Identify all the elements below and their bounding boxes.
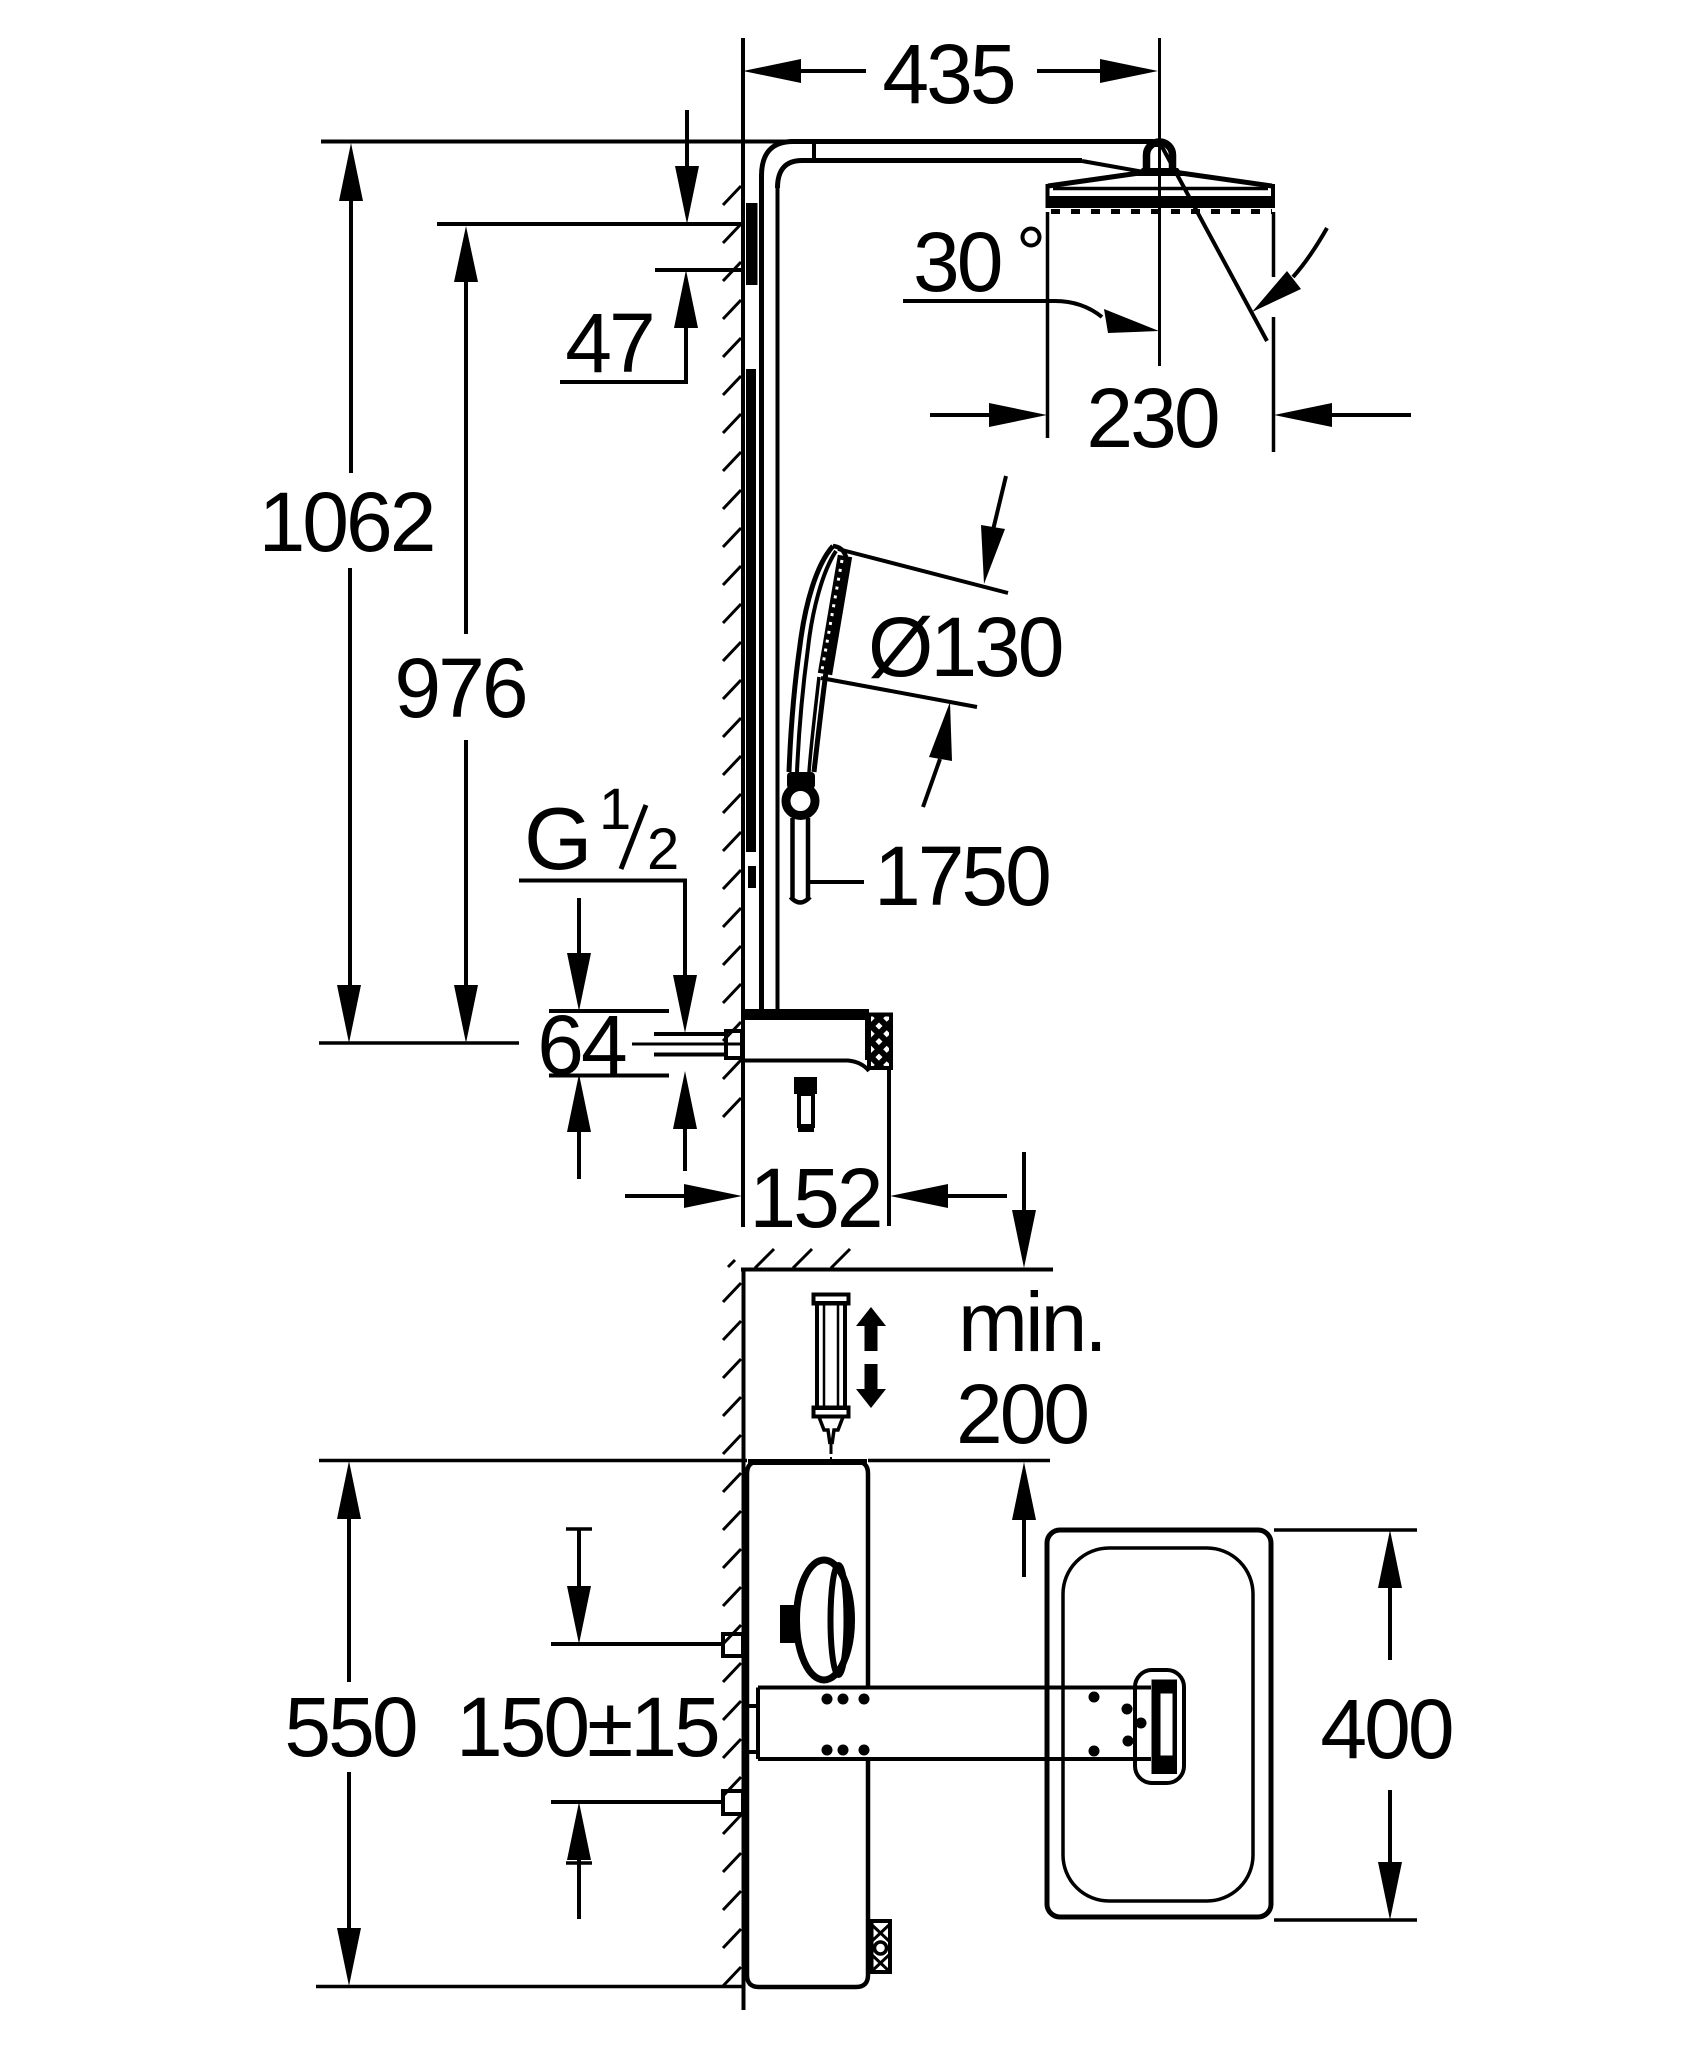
svg-text:2: 2	[647, 817, 679, 882]
lower wall hatching	[723, 1283, 741, 1986]
head spray face band	[1046, 196, 1276, 208]
dia130 lower arrow	[923, 759, 940, 807]
spout outlet capsule	[1135, 1670, 1184, 1783]
hose end cap	[791, 897, 811, 903]
svg-text:1: 1	[599, 777, 631, 842]
head rim line	[1053, 187, 1268, 191]
shelf bottom edge	[743, 1061, 869, 1072]
dim 47	[655, 268, 742, 272]
arm joint tick	[812, 139, 816, 163]
nozzle dashes	[1051, 209, 1272, 214]
svg-text:G: G	[524, 789, 592, 888]
hand shower right contour	[814, 672, 826, 772]
svg-text:435: 435	[882, 27, 1013, 121]
head top right slant	[1177, 173, 1272, 187]
lower wall top line	[741, 1268, 1053, 1272]
hose outlet stem	[799, 1094, 813, 1126]
svg-text:400: 400	[1320, 1682, 1451, 1776]
holder collar	[787, 772, 815, 789]
lower wall	[742, 1269, 746, 2010]
G 1/2 leader	[519, 881, 685, 976]
arm bend outer	[762, 142, 794, 177]
hand shower right inner line	[809, 677, 819, 772]
svg-text:30: 30	[913, 215, 1001, 309]
hose left line	[790, 818, 795, 898]
head right side	[1271, 184, 1275, 199]
leader 1750	[810, 880, 864, 884]
glide rail dark band	[746, 369, 756, 852]
dim min200 top arrow	[1022, 1152, 1026, 1210]
hand shower back inner line	[797, 551, 836, 772]
knob disc face ellipse	[831, 1565, 847, 1675]
tilted axis line 30deg	[1160, 143, 1267, 341]
syringe needle	[830, 1444, 833, 1454]
shelf knob crosshatch	[869, 1015, 891, 1069]
spout bar top	[758, 1686, 1151, 1690]
supply nipple cap	[726, 1031, 742, 1058]
svg-text:152: 152	[749, 1151, 880, 1245]
knob stem	[780, 1605, 798, 1643]
bathtub outer	[1047, 1530, 1271, 1917]
spout hinge dots	[822, 1692, 1147, 1757]
dim min200 bottom arrow	[1012, 1462, 1036, 1520]
riser pipe left line	[759, 174, 764, 1010]
svg-text:64: 64	[537, 998, 626, 1092]
dim 400	[1274, 1528, 1417, 1532]
dia130 upper arrow	[993, 476, 1006, 530]
spout left step	[744, 1706, 758, 1752]
riser pipe right line	[776, 186, 780, 1010]
dim 435 line and arrows	[801, 69, 866, 73]
svg-text:1750: 1750	[874, 829, 1049, 923]
arm bend inner	[778, 161, 803, 189]
svg-text:976: 976	[394, 641, 525, 735]
hatches above top line	[728, 1249, 850, 1268]
insert double arrow	[856, 1307, 886, 1326]
wall	[741, 38, 745, 1227]
spout bar bottom	[758, 1757, 1151, 1761]
bottom reference line (supply centre)	[319, 1041, 519, 1045]
svg-text:550: 550	[284, 1680, 415, 1774]
hand shower top cap	[833, 546, 846, 557]
svg-text:Ø130: Ø130	[868, 600, 1062, 694]
min200 reference line	[868, 1459, 1050, 1463]
ball joint saddle	[1136, 168, 1184, 176]
svg-text:230: 230	[1086, 371, 1217, 465]
shower arm tube top line	[791, 142, 1157, 148]
svg-text:200: 200	[956, 1367, 1087, 1461]
dim 435 right extension / head centerline	[1158, 38, 1161, 366]
wall hatching	[723, 186, 741, 1117]
dim 550	[319, 1459, 747, 1463]
svg-text:150±15: 150±15	[456, 1680, 718, 1774]
head left side	[1046, 184, 1050, 199]
shower arm tube bottom line	[801, 158, 1082, 163]
hose right line	[806, 818, 811, 898]
supply stub lower	[723, 1791, 743, 1814]
arm-to-head slant line	[1082, 161, 1144, 172]
syringe top lip	[814, 1295, 849, 1304]
dim 150pm15	[551, 1642, 723, 1646]
syringe body	[817, 1303, 845, 1408]
wall mounting bracket	[746, 203, 758, 285]
curved tilt arrow	[1293, 228, 1327, 277]
hand shower spray face	[825, 556, 845, 674]
hand shower back contour	[789, 546, 833, 772]
hose outlet crosshatch square	[872, 1921, 891, 1972]
svg-text:min.: min.	[958, 1275, 1105, 1369]
supply nipple lines	[654, 1032, 726, 1036]
dim 1062	[321, 140, 796, 144]
dim dia130 extension lines	[838, 549, 1008, 593]
knob disc ellipse	[797, 1560, 852, 1680]
syringe inner walls	[823, 1305, 826, 1406]
head top left slant	[1048, 173, 1143, 187]
30deg leader	[903, 301, 1102, 317]
syringe bottom lip	[814, 1408, 849, 1417]
dim 976	[437, 222, 742, 226]
holder knob ring	[786, 787, 815, 816]
svg-text:1062: 1062	[259, 475, 434, 569]
spout bar left cap	[756, 1688, 760, 1760]
glide rail end piece	[748, 866, 756, 888]
UPPER DRAWING	[259, 27, 1411, 1245]
supply centerline	[632, 1043, 741, 1046]
LOWER DRAWING	[284, 1152, 1451, 2010]
bathtub inner	[1063, 1548, 1253, 1901]
supply stub upper	[723, 1634, 743, 1656]
hose outlet nut	[794, 1077, 817, 1094]
dim 64	[549, 1009, 669, 1013]
valve body top edge thick	[748, 1459, 867, 1465]
svg-text:47: 47	[565, 296, 652, 390]
dim 152	[887, 1068, 891, 1226]
ball joint loop	[1147, 142, 1173, 174]
dim 230	[1046, 212, 1050, 438]
shelf top edge	[743, 1009, 869, 1020]
valve body outline	[747, 1462, 868, 1988]
syringe taper	[819, 1417, 830, 1444]
shelf right edge	[865, 1020, 869, 1060]
